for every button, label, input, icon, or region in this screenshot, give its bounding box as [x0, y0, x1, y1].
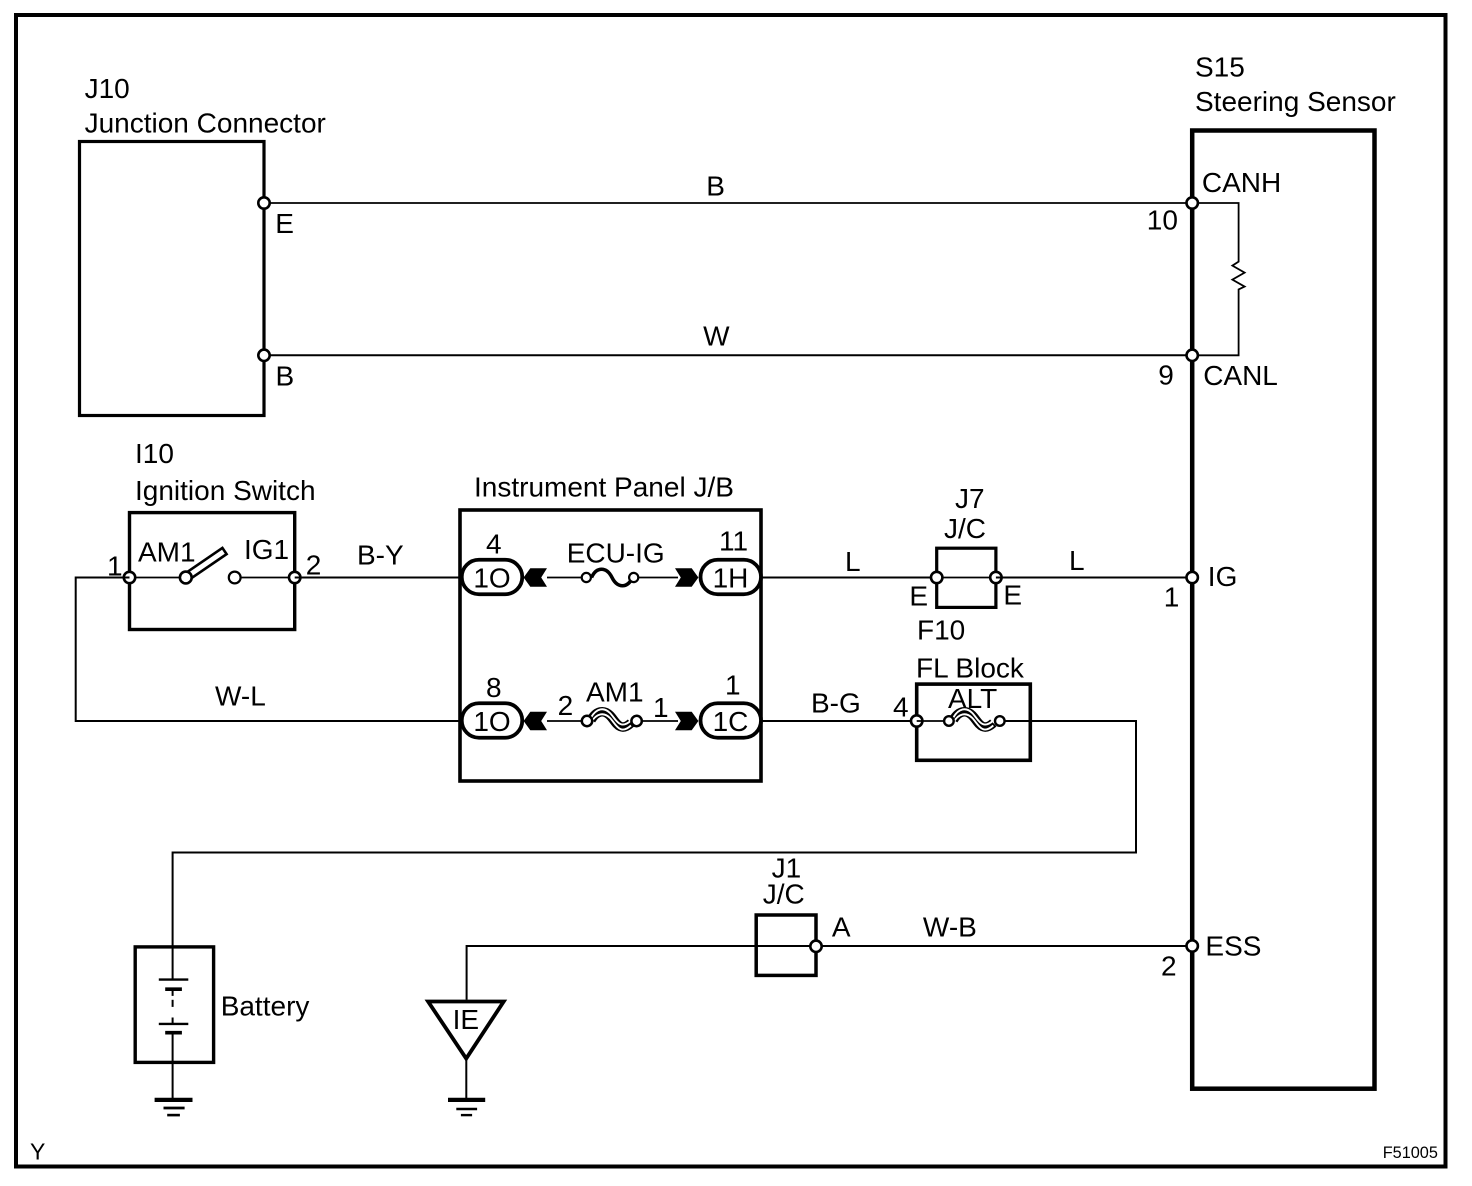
ground (battery) [155, 1100, 193, 1115]
pin E left of J7 [909, 572, 942, 612]
ignition switch I10 label [135, 438, 316, 506]
wire W-B row (IE up, right through J1 to S15 pin 2) [467, 946, 1193, 1000]
AM1 contact [180, 572, 192, 584]
wire ALT to ESS feed (right, down, left, down to battery) [173, 721, 1136, 947]
svg-text:9: 9 [1158, 360, 1174, 391]
pin E right of J7 [990, 572, 1022, 611]
junction connector J7 label [944, 483, 986, 544]
svg-text:Instrument Panel J/B: Instrument Panel J/B [474, 472, 734, 503]
pin A of J1 [810, 912, 851, 953]
svg-text:AM1: AM1 [138, 537, 196, 568]
junction connector J10 label [85, 73, 326, 139]
svg-text:B-G: B-G [811, 688, 861, 719]
steering sensor S15 label [1195, 52, 1396, 118]
pin 1 of I10 [107, 551, 135, 584]
svg-text:1O: 1O [473, 706, 510, 737]
svg-text:E: E [909, 581, 928, 612]
svg-text:1H: 1H [713, 563, 749, 594]
svg-text:2: 2 [1161, 951, 1177, 982]
svg-text:E: E [1003, 580, 1022, 611]
svg-text:F10: F10 [917, 615, 965, 646]
svg-text:B: B [706, 171, 725, 202]
svg-text:ESS: ESS [1205, 930, 1261, 961]
wire inside J7 [937, 577, 996, 579]
pin 2 ESS of S15 [1161, 930, 1261, 981]
arrow into 1C (right pointing) [675, 712, 698, 731]
svg-text:W-B: W-B [923, 912, 977, 943]
svg-text:AM1: AM1 [586, 677, 644, 708]
junction connector J7 box [937, 548, 996, 607]
svg-text:ALT: ALT [948, 683, 997, 714]
svg-text:4: 4 [486, 529, 502, 560]
svg-text:1: 1 [653, 692, 669, 723]
fusible link AM1 [582, 677, 644, 730]
svg-text:CANL: CANL [1203, 360, 1278, 391]
wire IG1 contact to pin2 [235, 577, 295, 579]
svg-text:CANH: CANH [1202, 167, 1281, 198]
pin B of J10 [258, 350, 294, 392]
switch lever [184, 548, 226, 580]
pin E of J10 [258, 197, 294, 239]
svg-text:J10: J10 [85, 73, 130, 104]
FL block box [917, 684, 1031, 760]
wire L (1H to J7) [761, 577, 937, 579]
svg-text:10: 10 [1147, 205, 1178, 236]
junction connector J1 box [756, 915, 816, 975]
svg-text:11: 11 [719, 526, 748, 557]
fusible link ALT [917, 683, 1005, 730]
battery [135, 947, 309, 1063]
svg-text:IG: IG [1208, 561, 1238, 592]
connector 1O pin 8 (bottom row) [462, 672, 523, 738]
junction connector J1 label [763, 853, 805, 910]
wire pin1 to AM1 contact [130, 577, 186, 579]
pin 10 CANH of S15 [1147, 167, 1281, 235]
IG1 contact [229, 572, 241, 584]
svg-text:FL Block: FL Block [916, 653, 1025, 684]
wire arrow to fuse [547, 577, 583, 579]
wire B (J10 pin E to S15 pin 10) [264, 202, 1192, 204]
svg-text:W-L: W-L [215, 681, 266, 712]
connector 1C pin 1 (bottom row) [701, 670, 762, 738]
svg-text:IE: IE [453, 1004, 479, 1035]
svg-text:J/C: J/C [763, 879, 805, 910]
wire W-L (I10 pin1 down and to J/B connector 1O pin8) [76, 578, 462, 722]
instrument panel J/B box [460, 510, 761, 781]
svg-text:B: B [276, 360, 295, 391]
junction connector J10 box [80, 142, 265, 416]
wire fuse to arrow [638, 577, 678, 579]
svg-text:2: 2 [306, 550, 322, 581]
connector 1H pin 11 (top row) [701, 526, 762, 595]
ground point IE triangle [428, 1002, 504, 1059]
svg-text:J7: J7 [955, 483, 985, 514]
arrow into 1O (left pointing) [524, 568, 547, 587]
wire L (J7 to S15 pin 1) [996, 577, 1192, 579]
wire B-Y (I10 pin2 to J/B connector 1O pin4) [295, 577, 462, 579]
pin 2 of I10 [289, 550, 321, 584]
steering sensor S15 box [1192, 131, 1374, 1089]
svg-text:1: 1 [1164, 581, 1180, 612]
pin 1 IG of S15 [1164, 561, 1238, 612]
svg-text:Junction Connector: Junction Connector [85, 108, 326, 139]
svg-text:Battery: Battery [221, 991, 310, 1022]
ignition switch I10 box [130, 513, 295, 630]
svg-text:1C: 1C [713, 706, 749, 737]
svg-text:B-Y: B-Y [357, 540, 404, 571]
svg-text:IG1: IG1 [244, 534, 289, 565]
wire B-G (1C to FL block pin 4) [761, 720, 917, 722]
svg-text:Y: Y [30, 1139, 45, 1165]
wire arrow to fusible link [547, 720, 584, 722]
svg-text:I10: I10 [135, 438, 174, 469]
svg-text:J/C: J/C [944, 513, 986, 544]
connector 1O pin 4 (top row) [462, 529, 523, 595]
svg-text:S15: S15 [1195, 52, 1245, 83]
svg-text:F51005: F51005 [1383, 1144, 1438, 1162]
terminating resistor inside S15 [1198, 203, 1245, 355]
wire battery to ground [172, 1062, 174, 1098]
fuse ECU-IG [567, 538, 665, 586]
svg-text:4: 4 [893, 692, 909, 723]
svg-text:W: W [703, 321, 730, 352]
wire link to arrow [642, 720, 678, 722]
pin 9 CANL of S15 [1158, 350, 1278, 391]
svg-text:L: L [1069, 545, 1085, 576]
svg-text:A: A [832, 912, 851, 943]
arrow into 1O bottom (left pointing) [524, 712, 547, 731]
wire W (J10 pin B to S15 pin 9) [264, 354, 1192, 356]
svg-text:ECU-IG: ECU-IG [567, 538, 665, 569]
svg-text:L: L [845, 546, 861, 577]
svg-text:2: 2 [558, 690, 574, 721]
svg-text:1O: 1O [473, 563, 510, 594]
arrow into 1H (right pointing) [675, 568, 698, 587]
pin 4 of FL block [893, 692, 922, 727]
ground (IE) [448, 1100, 485, 1115]
svg-text:E: E [275, 208, 294, 239]
svg-text:Ignition Switch: Ignition Switch [135, 475, 316, 506]
svg-text:8: 8 [486, 672, 502, 703]
wire IE to ground [465, 1059, 467, 1098]
svg-text:Steering Sensor: Steering Sensor [1195, 86, 1396, 117]
svg-text:1: 1 [725, 670, 741, 701]
